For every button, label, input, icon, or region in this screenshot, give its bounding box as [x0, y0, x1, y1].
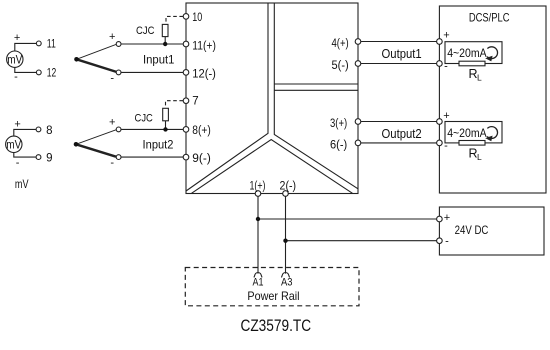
svg-text:mV: mV	[6, 137, 21, 151]
svg-text:12(-): 12(-)	[192, 69, 216, 81]
svg-text:+: +	[443, 30, 449, 42]
svg-text:8(+): 8(+)	[192, 125, 211, 137]
svg-text:-: -	[445, 235, 449, 247]
svg-text:10: 10	[192, 12, 202, 24]
svg-text:CZ3579.TC: CZ3579.TC	[240, 316, 311, 335]
svg-text:4(+): 4(+)	[332, 38, 349, 50]
svg-text:L: L	[477, 73, 482, 83]
svg-text:2(-): 2(-)	[280, 180, 297, 192]
svg-text:Output1: Output1	[382, 47, 422, 61]
svg-text:Power Rail: Power Rail	[247, 289, 299, 303]
svg-text:Output2: Output2	[382, 127, 422, 141]
svg-text:L: L	[477, 152, 482, 162]
svg-text:+: +	[109, 31, 115, 43]
svg-text:-: -	[110, 157, 114, 169]
svg-text:CJC: CJC	[136, 25, 155, 37]
svg-text:+: +	[109, 117, 115, 129]
svg-text:-: -	[444, 140, 448, 152]
svg-text:-: -	[444, 60, 448, 72]
svg-text:A3: A3	[281, 277, 293, 289]
svg-text:9: 9	[46, 153, 52, 165]
svg-text:12: 12	[47, 68, 57, 80]
svg-text:DCS/PLC: DCS/PLC	[469, 11, 510, 25]
svg-text:Input2: Input2	[143, 137, 174, 151]
svg-text:24V DC: 24V DC	[455, 225, 489, 237]
svg-text:9(-): 9(-)	[192, 153, 211, 165]
svg-text:11(+): 11(+)	[192, 40, 216, 52]
svg-text:+: +	[14, 119, 20, 131]
svg-text:4~20mA: 4~20mA	[447, 46, 486, 60]
svg-text:6(-): 6(-)	[330, 139, 347, 151]
svg-text:+: +	[443, 110, 449, 122]
svg-text:4~20mA: 4~20mA	[447, 126, 486, 140]
svg-text:1(+): 1(+)	[250, 180, 266, 192]
svg-text:7: 7	[192, 96, 198, 108]
svg-text:+: +	[14, 32, 20, 44]
svg-text:CJC: CJC	[135, 112, 153, 124]
svg-text:-: -	[14, 71, 18, 83]
svg-text:11: 11	[47, 39, 56, 51]
svg-text:-: -	[110, 72, 114, 84]
svg-text:-: -	[16, 157, 20, 169]
svg-text:A1: A1	[253, 277, 264, 289]
svg-text:Input1: Input1	[143, 52, 175, 66]
svg-text:8: 8	[46, 125, 52, 137]
svg-text:mV: mV	[7, 52, 22, 66]
svg-text:5(-): 5(-)	[332, 60, 349, 72]
svg-text:+: +	[444, 212, 450, 224]
svg-text:3(+): 3(+)	[330, 118, 347, 130]
svg-text:mV: mV	[15, 177, 29, 191]
